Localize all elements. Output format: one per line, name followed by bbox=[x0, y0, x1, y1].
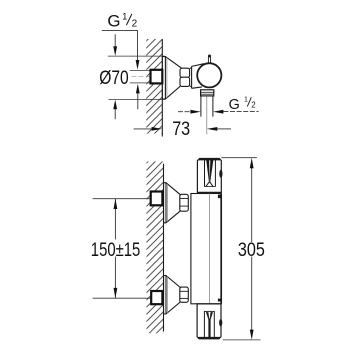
svg-text:2: 2 bbox=[132, 18, 138, 29]
svg-text:305: 305 bbox=[238, 239, 265, 261]
svg-text:73: 73 bbox=[172, 119, 190, 140]
svg-text:1: 1 bbox=[122, 11, 127, 21]
svg-text:150±15: 150±15 bbox=[91, 239, 141, 261]
svg-text:1: 1 bbox=[244, 96, 248, 103]
svg-text:Ø70: Ø70 bbox=[99, 68, 129, 89]
svg-text:G: G bbox=[107, 12, 120, 31]
svg-text:2: 2 bbox=[251, 101, 255, 110]
svg-text:G: G bbox=[229, 97, 240, 113]
